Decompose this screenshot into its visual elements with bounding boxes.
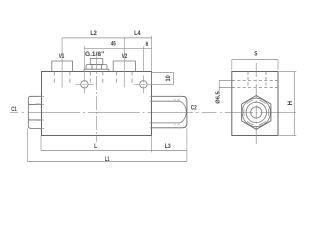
side view body <box>232 72 278 136</box>
svg-text:H: H <box>287 101 294 105</box>
plug G1/8 centerline <box>95 57 97 142</box>
side view vertical centerline <box>255 63 257 144</box>
mounting hole 1 <box>81 81 88 88</box>
hole 2 crosshair <box>134 75 152 93</box>
centerline C1-C2 axis <box>10 111 296 113</box>
side view hidden port <box>248 72 266 89</box>
dimension Ø6.5 leader <box>219 81 234 92</box>
extension body bottom-left <box>40 135 42 150</box>
extension C2 end <box>186 128 188 162</box>
extension C1 left <box>27 128 29 161</box>
port V2 hidden thread <box>117 72 133 85</box>
fitting C1 thread dashes <box>36 104 41 121</box>
svg-text:10: 10 <box>166 75 172 82</box>
svg-text:Ø6,5: Ø6,5 <box>215 91 221 104</box>
dimension L / L3 line <box>41 149 187 151</box>
C1 port hidden ticks inside body <box>42 96 45 128</box>
plug G1/8 hex band <box>86 65 107 70</box>
H extensions <box>279 72 296 136</box>
port V1 centerline <box>61 38 63 88</box>
fitting C1 hex band bottom <box>28 120 41 128</box>
svg-text:6: 6 <box>146 41 149 48</box>
C2 port hidden ticks inside body <box>149 96 151 128</box>
port V2 boss <box>113 61 135 72</box>
dimension row1 line (L2 / L4) <box>62 37 151 39</box>
svg-text:L4: L4 <box>134 30 141 37</box>
svg-text:G.1/8": G.1/8" <box>85 51 104 58</box>
fitting C2 nose arc <box>180 101 186 123</box>
svg-text:46: 46 <box>111 41 116 48</box>
S extensions <box>232 60 278 71</box>
svg-text:L1: L1 <box>105 156 110 163</box>
extension body bottom-right <box>151 136 153 153</box>
nut circle middle <box>246 102 266 122</box>
side view hidden mounting holes <box>232 81 278 88</box>
dimension row2 line (46 / 6) <box>84 47 151 49</box>
port V2 centerline <box>123 38 125 87</box>
dimension S <box>232 59 278 61</box>
nut circle inner <box>251 107 262 118</box>
fitting C1 corner beaks <box>27 102 30 122</box>
port V1 boss <box>52 61 73 72</box>
svg-text:V2: V2 <box>122 53 128 60</box>
svg-text:S: S <box>254 51 258 58</box>
fitting C2 thread lines <box>152 101 181 123</box>
fitting C1 hex band top <box>28 96 41 104</box>
svg-text:L3: L3 <box>165 143 171 150</box>
fitting C2 stud <box>152 96 187 128</box>
plug G1/8 upper square <box>90 59 103 65</box>
svg-text:C1: C1 <box>11 106 17 113</box>
svg-text:V1: V1 <box>59 53 65 60</box>
dimension H <box>293 72 295 136</box>
side view hex nut <box>242 96 271 130</box>
svg-text:C2: C2 <box>191 105 197 112</box>
hole 1 crosshair <box>75 75 93 93</box>
mounting hole 2 <box>140 81 147 88</box>
plug G1/8 flange <box>84 69 109 71</box>
dimension box 10 <box>152 73 174 85</box>
nut chamfer arcs <box>244 100 269 124</box>
fitting C2 thread dashes <box>174 100 181 124</box>
svg-text:L2: L2 <box>90 30 97 37</box>
extension hole1 up <box>83 46 85 75</box>
extension body right up <box>151 36 153 72</box>
svg-text:L: L <box>94 143 97 150</box>
port V1 hidden thread <box>54 72 70 85</box>
plug G1/8 hidden thread <box>90 72 103 85</box>
dimension L1 line <box>28 161 187 163</box>
nut chamfer circle <box>242 98 270 126</box>
fitting C1 hex band middle <box>28 104 41 120</box>
extension hole2 up <box>142 46 144 71</box>
body front view <box>42 72 152 136</box>
